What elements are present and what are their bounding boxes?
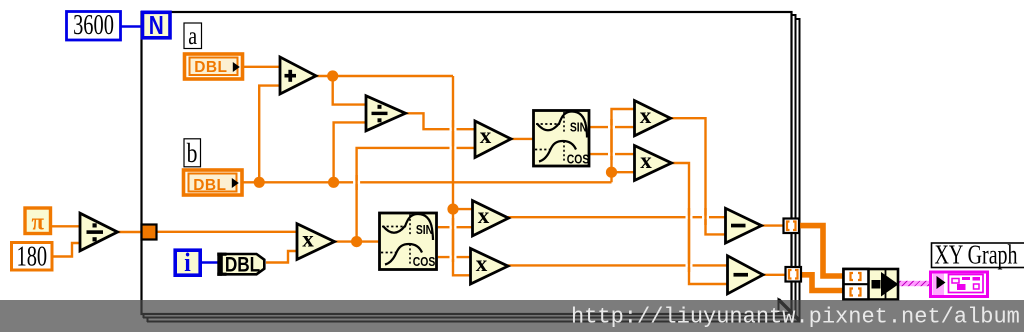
multiply function middle: [475, 121, 511, 158]
sin-cos function upper: [534, 111, 590, 167]
wire a control to add: [242, 66, 280, 68]
svg-text:http://liuyunantw.pixnet.net/a: http://liuyunantw.pixnet.net/album: [571, 305, 1020, 330]
label a: [184, 22, 202, 50]
junction dot a+b branch: [447, 204, 458, 215]
svg-text:COS: COS: [567, 152, 590, 166]
subtract function lower: [728, 256, 764, 294]
svg-text:DBL: DBL: [193, 177, 226, 194]
svg-text:i: i: [184, 249, 191, 277]
wire vertical restrokes over gaps: [357, 119, 706, 272]
cluster wire bundle to XY graph: [898, 281, 931, 286]
DBL control b: [184, 170, 243, 195]
wire lower right multiply to lower subtract: [671, 163, 728, 284]
numeric constant 180: [12, 242, 53, 273]
for-loop frame stack layer 3: [147, 18, 801, 322]
multiply function a+b cos: [471, 249, 509, 285]
svg-text:N: N: [149, 11, 164, 40]
numeric constant 3600: [67, 10, 121, 41]
svg-text:x: x: [480, 123, 492, 148]
wire b to add lower input: [259, 86, 280, 183]
wire b rail up branch to right multiplies: [612, 109, 635, 182]
divide function main: [366, 96, 406, 131]
watermark band: [0, 300, 1024, 332]
wire b control rail: [242, 181, 612, 183]
wire lower sincos SIN out: [438, 226, 473, 228]
svg-text:b: b: [187, 139, 198, 169]
thick array wire lower tunnel to bundle: [799, 275, 843, 291]
wire b branch to lower right multiply: [612, 171, 635, 173]
wire upper sincos COS out: [590, 153, 634, 155]
wire DBL conversion to bottom multiply: [266, 251, 297, 263]
pi constant: [25, 208, 51, 236]
svg-text:180: 180: [16, 242, 47, 273]
wire 3600 to N terminal: [121, 25, 143, 27]
junction dot b rail at x259: [254, 177, 265, 188]
output tunnel upper (auto-indexing): [784, 219, 800, 234]
input tunnel on left border: [142, 225, 157, 240]
junction dot t output: [351, 236, 362, 247]
bundle function: [844, 269, 899, 300]
svg-text:COS: COS: [413, 255, 436, 269]
wire upper sincos SIN out: [590, 126, 634, 128]
svg-text:XY Graph: XY Graph: [935, 241, 1018, 271]
loop count terminal N: [143, 11, 171, 40]
wire divider output to loop tunnel: [117, 231, 149, 233]
XY Graph label: [932, 241, 1024, 271]
wire upper right multiply to upper subtract: [670, 118, 726, 234]
wire sin product to upper subtract: [508, 216, 726, 218]
svg-text:a: a: [188, 22, 197, 50]
wire crossing gaps: [353, 126, 709, 268]
multiply function lower right: [635, 146, 672, 181]
DBL conversion bullet: [217, 253, 264, 277]
wire add output to divide top: [333, 76, 366, 105]
svg-text:x: x: [640, 103, 652, 128]
sin-cos function lower: [380, 213, 437, 270]
junction dot add output: [327, 70, 338, 81]
wire tunnel to bottom multiply: [149, 231, 297, 233]
junction dot b rail at x333: [328, 177, 339, 188]
svg-text:DBL: DBL: [194, 59, 227, 76]
wire pi constant to divider: [52, 225, 80, 227]
wire upper subtract to tunnel: [761, 224, 791, 226]
wire 180 constant to divider: [54, 243, 81, 257]
add function: [280, 57, 316, 94]
svg-text:x: x: [476, 251, 488, 276]
multiply function a+b sin: [473, 201, 509, 236]
junction dot b rail at x611: [606, 167, 617, 178]
svg-text:x: x: [640, 148, 652, 173]
subtract function upper: [726, 208, 762, 243]
wire a+b branch to upper-lower multiply: [453, 208, 473, 210]
wire a+b vertical branch: [453, 76, 471, 275]
multiply function upper right: [635, 101, 671, 136]
wire bottom multiply output to lower sincos: [334, 240, 379, 242]
svg-text:DBL: DBL: [225, 254, 261, 277]
wire lower subtract to tunnel: [763, 274, 794, 276]
wire i terminal to DBL conversion: [200, 261, 222, 263]
label b: [184, 139, 201, 169]
iteration terminal i: [175, 249, 200, 277]
DBL control a: [185, 54, 243, 79]
divide function left: [80, 213, 118, 251]
for-loop corner fold: [779, 300, 801, 322]
wire t branch up to middle multiply bottom: [357, 148, 475, 242]
for-loop frame stack layer 2: [143, 14, 797, 318]
wire add output rail: [316, 75, 453, 77]
thick array wire upper tunnel to bundle: [797, 226, 843, 276]
XY Graph terminal: [931, 272, 988, 297]
multiply function bottom: [297, 224, 335, 260]
svg-text:SIN: SIN: [416, 223, 433, 237]
wire middle multiply output to upper sincos: [511, 138, 533, 140]
wire lower sincos COS out: [438, 256, 471, 258]
wire b rail to divide bottom: [334, 122, 366, 182]
output tunnel lower (auto-indexing): [786, 267, 802, 282]
svg-text:x: x: [302, 226, 314, 251]
svg-text:SIN: SIN: [570, 120, 587, 134]
wire cos product to lower subtract: [508, 264, 729, 266]
svg-text:3600: 3600: [73, 10, 114, 41]
svg-text:x: x: [478, 203, 490, 228]
wire divide output to middle multiply top: [405, 113, 475, 129]
svg-text:π: π: [32, 209, 45, 236]
for-loop main frame: [142, 12, 792, 314]
